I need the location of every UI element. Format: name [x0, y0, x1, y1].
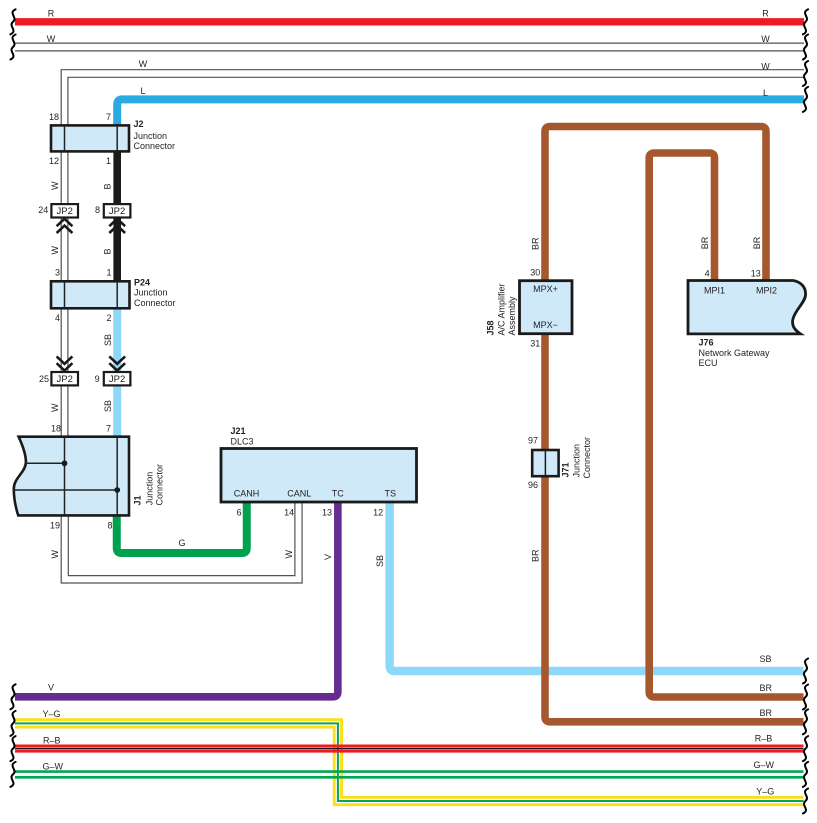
svg-text:R: R: [762, 9, 769, 19]
svg-text:13: 13: [751, 269, 761, 279]
svg-text:JP2: JP2: [109, 206, 125, 217]
svg-text:24: 24: [38, 205, 48, 215]
svg-text:R–B: R–B: [755, 733, 773, 743]
svg-text:SB: SB: [375, 555, 385, 567]
svg-text:Junction: Junction: [134, 131, 168, 141]
svg-text:96: 96: [528, 480, 538, 490]
svg-text:JP2: JP2: [109, 374, 125, 385]
svg-text:SB: SB: [760, 654, 772, 664]
svg-text:R: R: [48, 9, 55, 19]
svg-text:ECU: ECU: [699, 358, 718, 368]
svg-text:MPI2: MPI2: [756, 286, 777, 296]
svg-text:W: W: [50, 246, 60, 255]
svg-text:W: W: [761, 62, 770, 72]
svg-text:B: B: [103, 248, 113, 254]
svg-text:12: 12: [373, 508, 383, 518]
svg-text:Connector: Connector: [134, 298, 176, 308]
svg-text:L: L: [140, 86, 145, 96]
svg-text:31: 31: [530, 339, 540, 349]
svg-text:L: L: [763, 88, 768, 98]
svg-text:SB: SB: [103, 334, 113, 346]
svg-text:MPX+: MPX+: [533, 284, 558, 294]
svg-text:Junction: Junction: [144, 472, 154, 506]
svg-text:W: W: [139, 59, 148, 69]
svg-text:JP2: JP2: [57, 206, 73, 217]
svg-text:18: 18: [51, 423, 61, 433]
svg-text:1: 1: [106, 156, 111, 166]
svg-text:J21: J21: [231, 426, 246, 436]
svg-text:25: 25: [39, 374, 49, 384]
svg-text:2: 2: [106, 313, 111, 323]
svg-text:TS: TS: [385, 489, 397, 499]
svg-text:J2: J2: [134, 119, 144, 129]
svg-text:BR: BR: [530, 237, 540, 250]
svg-text:G: G: [178, 538, 185, 548]
svg-text:8: 8: [107, 521, 112, 531]
svg-text:J71: J71: [561, 462, 571, 477]
svg-text:1: 1: [106, 268, 111, 278]
svg-text:W: W: [50, 181, 60, 190]
svg-text:MPX−: MPX−: [533, 320, 558, 330]
svg-text:B: B: [103, 183, 113, 189]
svg-text:4: 4: [55, 313, 60, 323]
svg-text:BR: BR: [760, 683, 773, 693]
svg-text:G–W: G–W: [43, 762, 64, 772]
svg-text:J76: J76: [699, 338, 714, 348]
svg-text:MPI1: MPI1: [704, 286, 725, 296]
svg-text:Assembly: Assembly: [507, 296, 517, 336]
svg-text:8: 8: [95, 205, 100, 215]
svg-text:12: 12: [49, 156, 59, 166]
svg-text:Junction: Junction: [134, 288, 168, 298]
svg-text:7: 7: [106, 423, 111, 433]
svg-text:CANL: CANL: [287, 489, 311, 499]
svg-text:Connector: Connector: [582, 437, 592, 479]
svg-text:3: 3: [55, 268, 60, 278]
svg-text:9: 9: [95, 374, 100, 384]
svg-text:14: 14: [284, 508, 294, 518]
svg-text:R–B: R–B: [43, 736, 61, 746]
svg-text:W: W: [50, 403, 60, 412]
svg-text:19: 19: [50, 521, 60, 531]
svg-text:W: W: [47, 34, 56, 44]
svg-text:BR: BR: [700, 236, 710, 249]
svg-text:Y–G: Y–G: [43, 709, 61, 719]
svg-text:SB: SB: [103, 400, 113, 412]
svg-text:TC: TC: [332, 489, 344, 499]
svg-text:W: W: [761, 34, 770, 44]
svg-text:7: 7: [106, 112, 111, 122]
svg-text:Y–G: Y–G: [756, 786, 774, 796]
svg-text:30: 30: [530, 268, 540, 278]
svg-text:J1: J1: [133, 495, 143, 505]
svg-text:4: 4: [705, 269, 710, 279]
svg-text:P24: P24: [134, 277, 150, 287]
svg-text:A/C Amplifier: A/C Amplifier: [497, 283, 507, 335]
svg-text:V: V: [323, 554, 333, 560]
svg-text:G–W: G–W: [754, 760, 775, 770]
svg-text:W: W: [50, 550, 60, 559]
svg-text:BR: BR: [530, 549, 540, 562]
svg-text:Connector: Connector: [134, 141, 176, 151]
svg-text:Junction: Junction: [572, 444, 582, 478]
svg-text:BR: BR: [752, 236, 762, 249]
svg-text:Connector: Connector: [154, 464, 164, 506]
svg-text:V: V: [48, 683, 54, 693]
svg-text:97: 97: [528, 436, 538, 446]
svg-text:13: 13: [322, 508, 332, 518]
svg-text:W: W: [284, 550, 294, 559]
svg-text:CANH: CANH: [234, 489, 260, 499]
svg-text:Network Gateway: Network Gateway: [699, 348, 771, 358]
svg-text:18: 18: [49, 112, 59, 122]
svg-text:JP2: JP2: [57, 374, 73, 385]
svg-text:DLC3: DLC3: [231, 437, 254, 447]
svg-text:BR: BR: [760, 708, 773, 718]
svg-text:J58: J58: [486, 320, 496, 335]
svg-text:6: 6: [237, 508, 242, 518]
